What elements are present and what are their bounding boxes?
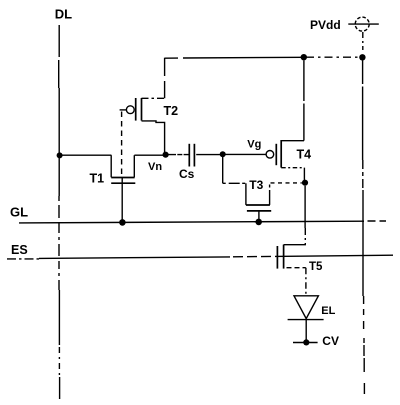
node Vn: [163, 152, 169, 158]
wire Vn node to Cs (dashed): [168, 154, 189, 156]
svg-text:T1: T1: [90, 171, 105, 185]
svg-text:EL: EL: [321, 305, 335, 317]
wire PVdd terminal to rail (dash-dot): [362, 32, 364, 50]
svg-text:ES: ES: [11, 243, 28, 257]
wire T2 drain up to PVdd rail: [164, 58, 166, 99]
wire Vg node down to T3: [222, 154, 224, 183]
svg-text:T2: T2: [164, 104, 179, 118]
node GL / T1 gate junction: [119, 219, 126, 226]
transistor T2: [126, 98, 164, 153]
node PVdd rail / T4 junction: [301, 54, 307, 60]
wire GL horizontal: [19, 221, 386, 223]
node CV: [303, 339, 309, 345]
node GL / T3 gate junction: [255, 219, 262, 226]
wire Vg node to T4 gate: [225, 153, 265, 155]
power terminal PVdd (circle): [348, 17, 379, 31]
svg-text:CV: CV: [322, 334, 339, 348]
wire T1 drain to Vn node: [134, 154, 165, 156]
wire T2 gate (dashed) to GL: [120, 110, 127, 177]
wire EL cathode to CV: [305, 320, 307, 343]
wire supply column (right vertical, dash-dot): [363, 61, 365, 395]
svg-text:T4: T4: [297, 147, 312, 161]
wire CV stub: [293, 342, 318, 344]
wire ES horizontal: [7, 255, 393, 259]
node Vg junction: [220, 151, 226, 157]
wire PVdd rail: [165, 57, 362, 58]
capacitor Cs: [189, 144, 194, 167]
wire junction down to T5 (dash-dot): [304, 186, 306, 245]
wire DL vertical: [58, 25, 61, 399]
svg-text:Vg: Vg: [247, 139, 261, 151]
svg-text:PVdd: PVdd: [310, 18, 341, 32]
transistor T5: [277, 245, 306, 296]
svg-text:Cs: Cs: [179, 167, 195, 181]
wire rail down to T4 source: [303, 60, 305, 140]
svg-text:T3: T3: [249, 178, 263, 192]
wire T3 drain to T4 drain node (dashed): [271, 182, 302, 184]
svg-text:Vn: Vn: [148, 161, 162, 173]
wire Vg to T3 source (dashed): [223, 182, 246, 184]
node DL junction: [57, 152, 63, 158]
svg-text:GL: GL: [10, 204, 28, 219]
svg-text:T5: T5: [309, 261, 323, 273]
transistor T3: [246, 183, 271, 222]
wire DL to T1 source: [60, 154, 112, 156]
node T4 drain / T5 junction: [302, 180, 308, 186]
transistor T1: [111, 155, 135, 222]
svg-text:DL: DL: [55, 7, 72, 22]
wire Cs to Vg node: [196, 154, 223, 156]
transistor T4: [266, 140, 304, 180]
diode EL (OLED): [288, 296, 324, 320]
node PVdd rail / supply column junction: [359, 54, 365, 60]
